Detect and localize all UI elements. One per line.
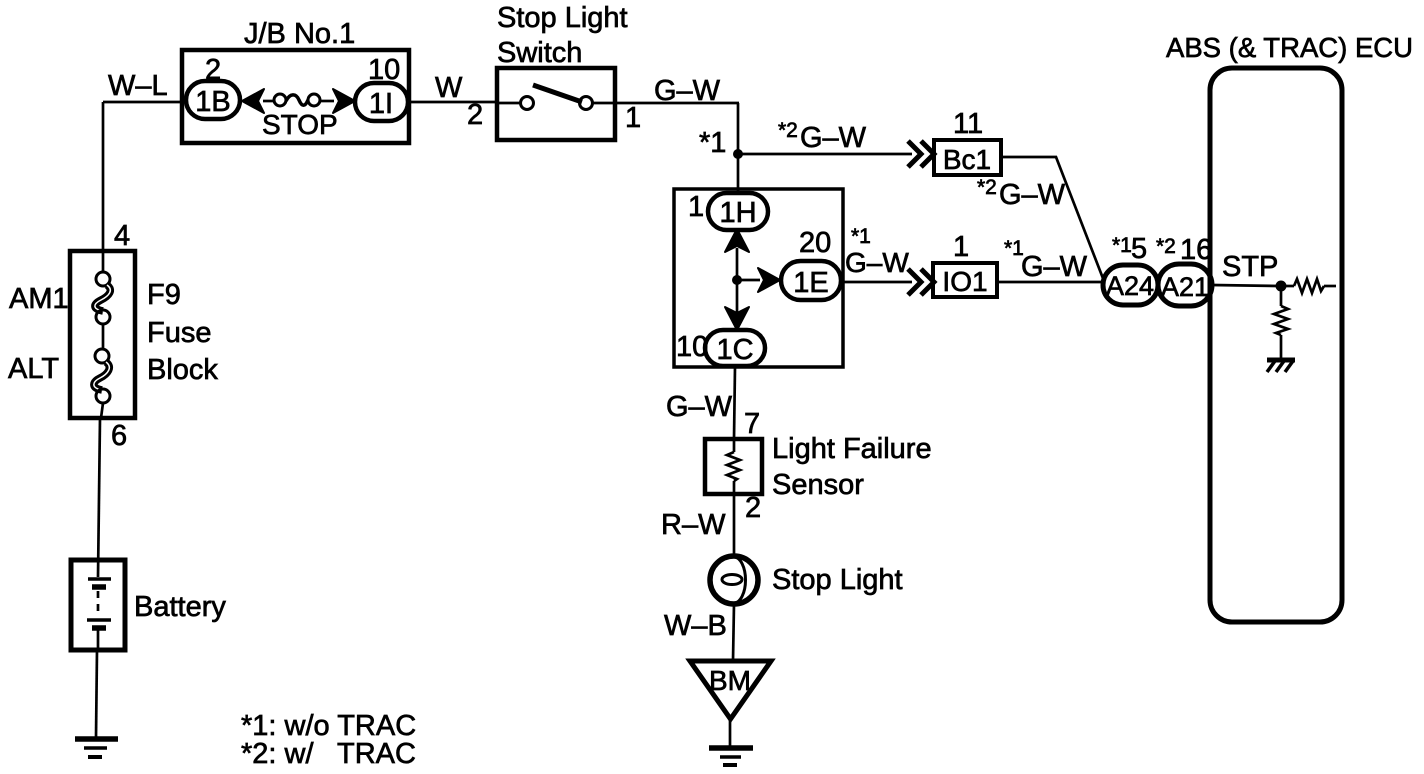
- svg-text:A21: A21: [1161, 272, 1209, 302]
- svg-text:F9: F9: [147, 279, 181, 311]
- chassis ground in ECU: [1267, 358, 1295, 363]
- svg-text:Switch: Switch: [497, 37, 582, 69]
- svg-text:*1: *1: [851, 225, 871, 248]
- svg-text:TRAC: TRAC: [337, 738, 416, 770]
- svg-text:*2: w/: *2: w/: [241, 738, 314, 770]
- connector A24: [1103, 265, 1158, 305]
- svg-text:G–W: G–W: [845, 247, 909, 278]
- svg-text:R–W: R–W: [661, 509, 726, 541]
- svg-text:1E: 1E: [793, 267, 828, 299]
- svg-text:1C: 1C: [716, 334, 753, 366]
- fuse block box: [70, 251, 135, 418]
- connector A21: [1158, 264, 1212, 306]
- resistor vertical in ECU: [1274, 306, 1288, 335]
- wire fuse right lead: [320, 100, 334, 103]
- svg-text:W–L: W–L: [108, 70, 168, 102]
- svg-text:Sensor: Sensor: [772, 469, 864, 501]
- battery plate short bottom: [92, 625, 106, 631]
- svg-text:*1: *1: [699, 127, 726, 159]
- connector 1E: [781, 261, 841, 300]
- wire lamp to BM: [733, 604, 734, 661]
- resistor in sensor: [727, 452, 740, 481]
- switch lever: [533, 85, 582, 102]
- fuse STOP arrow left: [242, 89, 264, 113]
- svg-text:*2: *2: [1156, 235, 1176, 258]
- wire A21 into ECU to node: [1212, 285, 1278, 286]
- wire BM to ground: [729, 719, 732, 746]
- wire between fuses: [102, 324, 105, 350]
- wire into fuse AM1: [102, 251, 105, 273]
- connector block 1H 1E 1C: [674, 189, 843, 367]
- wire node down: [1280, 286, 1283, 306]
- wire fuse block to battery: [98, 418, 100, 577]
- wire IO1 to A24: [997, 281, 1104, 284]
- svg-text:1: 1: [625, 102, 641, 134]
- node junction dot in ECU: [1276, 281, 1287, 292]
- switch contact right: [580, 97, 593, 110]
- wire vertical down to connector 1H: [737, 103, 740, 193]
- svg-text:Battery: Battery: [134, 591, 226, 623]
- wire Bc1 to A24 with diagonal: [1001, 157, 1104, 281]
- svg-text:ALT: ALT: [8, 353, 59, 385]
- svg-text:STP: STP: [1222, 251, 1278, 283]
- wire node to resistor: [1281, 285, 1294, 288]
- svg-text:6: 6: [111, 420, 127, 452]
- fuse STOP symbol: [274, 94, 286, 106]
- svg-text:ABS (& TRAC) ECU: ABS (& TRAC) ECU: [1166, 32, 1413, 63]
- svg-text:*1: *1: [1112, 234, 1132, 257]
- svg-text:2: 2: [467, 99, 483, 131]
- wire node down to 1C arrow: [736, 280, 739, 312]
- fuse STOP arrow right: [333, 89, 355, 113]
- ground below battery: [75, 736, 118, 742]
- connector 1I: [355, 83, 408, 121]
- battery plate long bottom: [87, 618, 111, 622]
- svg-text:G–W: G–W: [666, 391, 733, 423]
- junction block J/B No.1: [182, 50, 409, 143]
- svg-text:G–W: G–W: [654, 75, 721, 107]
- svg-text:11: 11: [953, 108, 983, 140]
- svg-text:Bc1: Bc1: [943, 144, 991, 175]
- svg-text:BM: BM: [709, 665, 751, 696]
- svg-text:7: 7: [744, 408, 760, 440]
- svg-text:A24: A24: [1106, 271, 1154, 301]
- svg-text:1: 1: [688, 191, 704, 223]
- connector Bc1: [934, 140, 1001, 175]
- wire battery to ground: [96, 650, 97, 737]
- wire 1C to light failure sensor: [734, 367, 735, 439]
- connector IO1: [933, 263, 997, 297]
- svg-text:Block: Block: [147, 354, 218, 386]
- svg-text:1: 1: [953, 231, 969, 263]
- connector 1H: [708, 193, 768, 230]
- battery plate long top: [88, 577, 111, 581]
- svg-text:Stop Light: Stop Light: [772, 564, 903, 596]
- svg-text:IO1: IO1: [942, 266, 987, 297]
- switch contact left: [497, 102, 520, 105]
- light failure sensor box: [705, 439, 762, 494]
- svg-text:G–W: G–W: [1021, 251, 1088, 283]
- svg-text:1B: 1B: [195, 86, 230, 118]
- ABS ECU box: [1210, 68, 1342, 622]
- wire G-W from switch to node *1: [615, 102, 739, 105]
- svg-text:1H: 1H: [719, 197, 756, 229]
- wire fuse ALT to block edge: [101, 403, 103, 418]
- svg-text:*2: *2: [977, 176, 997, 199]
- battery plate short top: [92, 584, 106, 590]
- svg-text:J/B No.1: J/B No.1: [244, 18, 355, 50]
- svg-text:2: 2: [745, 492, 761, 524]
- wire resistor to right: [1324, 285, 1336, 288]
- svg-text:G–W: G–W: [800, 122, 867, 154]
- battery dashed center: [97, 591, 100, 616]
- svg-text:Light Failure: Light Failure: [772, 433, 932, 465]
- wire into sensor: [733, 439, 736, 452]
- arrow right into 1E: [758, 268, 780, 292]
- svg-text:W: W: [435, 72, 463, 104]
- connector chevrons to IO1: [908, 269, 921, 295]
- stop light switch box: [497, 68, 615, 140]
- svg-text:4: 4: [114, 220, 130, 252]
- svg-text:*2: *2: [778, 119, 798, 142]
- arrow up into 1H: [725, 229, 749, 252]
- svg-text:W–B: W–B: [664, 610, 727, 642]
- svg-text:AM1: AM1: [9, 283, 69, 315]
- wire resistor to ground: [1280, 335, 1283, 359]
- wire W-L horizontal from node to J/B: [103, 101, 186, 104]
- stop light lamp: [710, 556, 758, 604]
- wire node to 1E arrow: [737, 279, 760, 282]
- connector 1B: [186, 81, 240, 119]
- fuse AM1: [96, 272, 110, 286]
- svg-text:16: 16: [1180, 234, 1212, 266]
- svg-text:20: 20: [799, 227, 831, 259]
- svg-text:1I: 1I: [369, 88, 393, 120]
- ground below BM: [709, 745, 753, 751]
- ground connector BM triangle: [690, 661, 771, 719]
- wire 1H to node: [736, 248, 739, 278]
- wire left rail vertical down to fuse block: [102, 102, 105, 251]
- wire branch to Bc1: [738, 153, 912, 156]
- arrow down into 1C: [725, 307, 749, 330]
- node junction dot: [733, 149, 743, 159]
- svg-text:G–W: G–W: [999, 179, 1066, 211]
- wire 1E to IO1: [841, 281, 912, 284]
- svg-text:Stop Light: Stop Light: [497, 2, 628, 34]
- svg-text:5: 5: [1131, 233, 1147, 265]
- fuse ALT: [95, 349, 109, 363]
- connector 1C: [705, 330, 765, 366]
- node junction dot inside block: [732, 275, 742, 285]
- battery box: [71, 560, 125, 650]
- wire battery internal bottom: [97, 628, 100, 650]
- resistor horizontal in ECU: [1294, 279, 1324, 293]
- connector chevrons to Bc1: [908, 141, 921, 167]
- svg-text:Fuse: Fuse: [147, 317, 211, 349]
- wire out of sensor: [733, 481, 736, 555]
- wire fuse left lead: [263, 100, 274, 103]
- wire W from J/B to switch: [408, 101, 497, 104]
- svg-text:STOP: STOP: [262, 109, 338, 140]
